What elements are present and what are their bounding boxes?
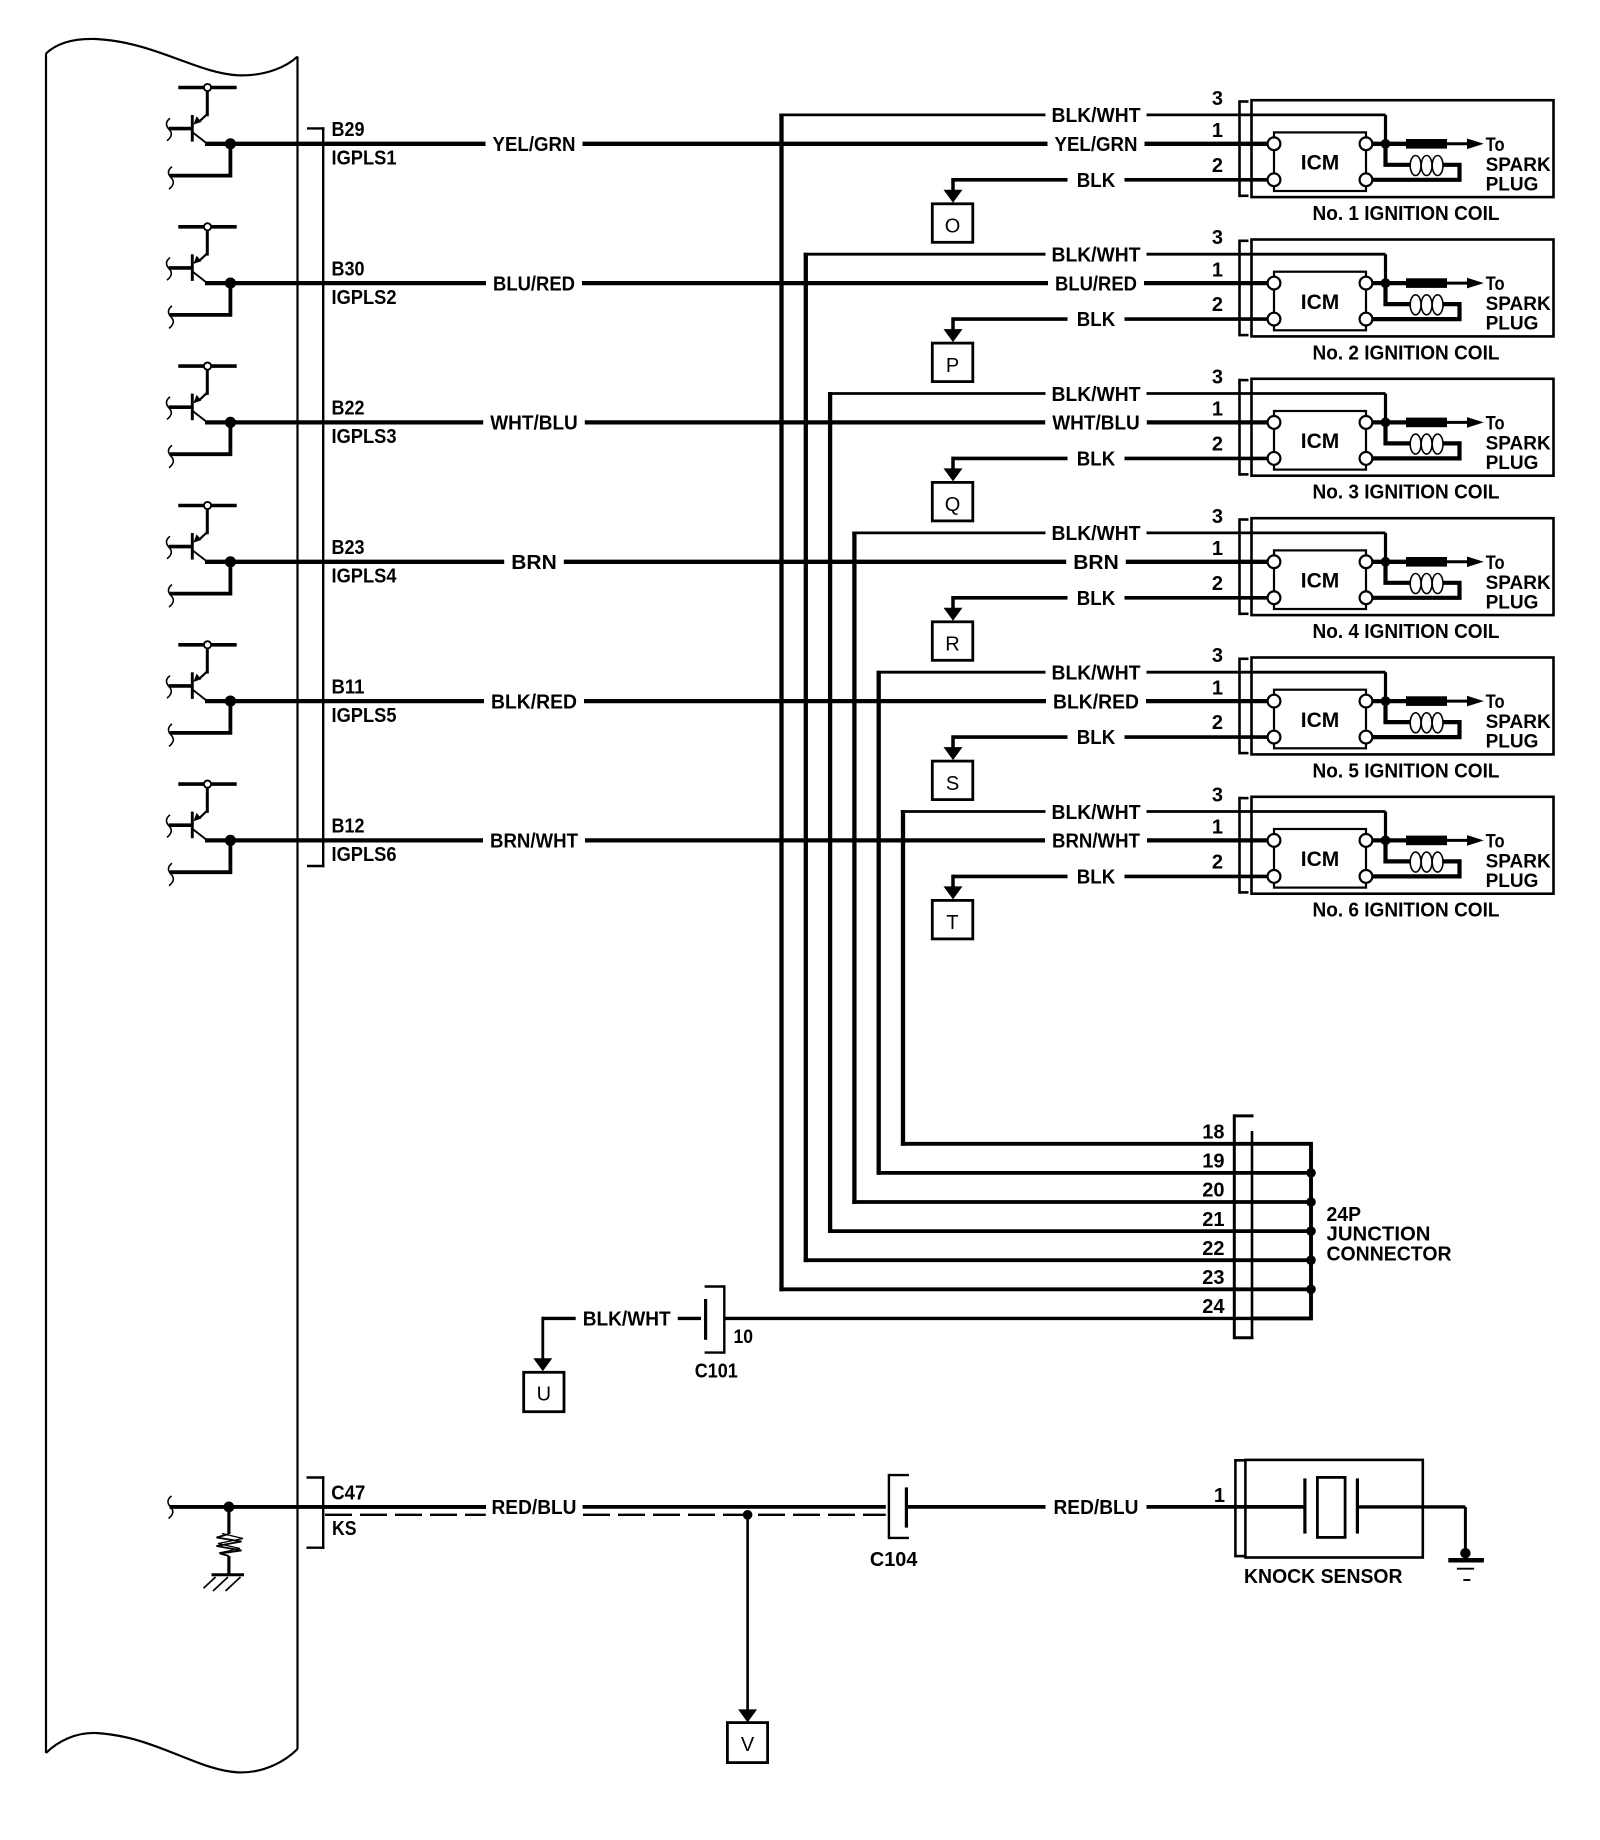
transistor Q3 emitter junction dot (225, 417, 236, 428)
shield junction dot (743, 1510, 753, 1520)
svg-text:To: To (1486, 553, 1505, 574)
svg-text:1: 1 (1212, 259, 1223, 281)
svg-text:BLK/WHT: BLK/WHT (1052, 663, 1141, 685)
knock sensor connector bracket (1235, 1459, 1245, 1557)
svg-text:ICM: ICM (1301, 152, 1340, 175)
svg-text:BLK/RED: BLK/RED (1053, 691, 1139, 713)
ICM coil 1 output wire (1366, 142, 1406, 146)
ICM module coil 6 (1274, 829, 1366, 888)
ground arrow to P (944, 317, 963, 342)
wire BLK/WHT bus for coil 5 (vertical) (877, 671, 881, 1175)
svg-text:IGPLS4: IGPLS4 (332, 566, 398, 588)
svg-text:BLK/WHT: BLK/WHT (583, 1309, 671, 1331)
svg-text:21: 21 (1202, 1209, 1224, 1231)
ECM connector bracket C47 (307, 1476, 325, 1549)
wire BLK/WHT coil 3 pin 3 (828, 394, 1386, 423)
ground arrow to V (738, 1515, 757, 1723)
ignition coil 6 connector bracket (1240, 797, 1249, 894)
svg-text:BLK: BLK (1077, 727, 1116, 749)
svg-text:SPARK: SPARK (1486, 712, 1551, 733)
ICM coil 6 terminals (1268, 834, 1373, 883)
svg-text:JUNCTION: JUNCTION (1327, 1224, 1431, 1246)
svg-text:1: 1 (1212, 817, 1223, 839)
svg-text:BLK/WHT: BLK/WHT (1052, 802, 1141, 824)
svg-text:1: 1 (1212, 399, 1223, 421)
wire BLK/WHT coil 6 pin 3 (901, 812, 1386, 841)
ICM coil 5 terminals (1268, 695, 1373, 744)
junction connector pin 21 stub (1252, 1229, 1311, 1233)
connector box V (727, 1723, 767, 1763)
connector box Q (932, 482, 973, 521)
ignition coil 4 connector bracket (1240, 518, 1249, 615)
label 24P JUNCTION CONNECTOR (1327, 1204, 1453, 1266)
svg-text:2: 2 (1212, 155, 1223, 177)
svg-text:24P: 24P (1327, 1204, 1362, 1226)
svg-text:SPARK: SPARK (1486, 294, 1551, 315)
wire BLK/WHT bus for coil 2 (vertical) (804, 253, 808, 1262)
svg-text:BLU/RED: BLU/RED (1055, 273, 1137, 295)
svg-text:IGPLS1: IGPLS1 (332, 148, 397, 170)
ICM coil 6 output wire (1366, 838, 1406, 842)
wire B29 YEL/GRN to ignition coil 1 pin 1 (205, 142, 1268, 146)
transistor ignition driver Q5 (166, 641, 236, 701)
wire BLK/WHT bus for coil 5 to junction pin 19 (877, 1171, 1252, 1175)
svg-text:10: 10 (734, 1327, 754, 1348)
junction dot coil 3 (1381, 418, 1391, 428)
svg-text:19: 19 (1202, 1151, 1224, 1173)
svg-text:ICM: ICM (1301, 570, 1340, 593)
wire RED/BLU knock sensor signal (325, 1505, 886, 1509)
ignition coil 5 box (1252, 658, 1554, 755)
svg-text:B11: B11 (332, 676, 365, 698)
suppressor resistor coil 5 (1406, 696, 1447, 706)
ignition coil 5 connector bracket (1240, 658, 1249, 755)
svg-text:R: R (945, 634, 959, 656)
ICM coil 2 output wire (1366, 281, 1406, 285)
svg-text:2: 2 (1212, 712, 1223, 734)
svg-text:KS: KS (332, 1518, 357, 1540)
svg-text:ICM: ICM (1301, 848, 1340, 871)
svg-text:IGPLS5: IGPLS5 (332, 705, 397, 727)
transistor ignition driver Q3 (166, 363, 236, 423)
wire to spark plug coil 3 (1447, 417, 1484, 428)
wire BLK/WHT bus for coil 1 (vertical) (779, 114, 783, 1292)
wire BLK/WHT bus for coil 4 (vertical) (852, 532, 856, 1204)
label To SPARK PLUG coil 6 (1486, 832, 1551, 893)
svg-text:SPARK: SPARK (1486, 852, 1551, 873)
svg-text:Q: Q (945, 494, 961, 516)
ICM coil 4 terminals (1268, 555, 1373, 604)
svg-text:C101: C101 (695, 1360, 738, 1382)
ECM connector bracket B pins (307, 127, 324, 867)
svg-text:P: P (946, 355, 959, 377)
svg-text:ICM: ICM (1301, 709, 1340, 732)
svg-text:CONNECTOR: CONNECTOR (1327, 1244, 1453, 1266)
label To SPARK PLUG coil 4 (1486, 553, 1551, 614)
svg-text:S: S (946, 773, 959, 795)
junction dot pin 22 (1306, 1255, 1316, 1265)
junction connector common bus (1252, 1144, 1311, 1319)
ground arrow to R (944, 596, 963, 621)
svg-text:3: 3 (1212, 88, 1223, 110)
ICM module coil 4 (1274, 550, 1366, 609)
ground arrow to O (944, 178, 963, 203)
transistor ignition driver Q2 (166, 223, 236, 283)
svg-text:YEL/GRN: YEL/GRN (1055, 134, 1138, 156)
transistor Q2 lower lead (168, 283, 230, 328)
svg-text:No. 1 IGNITION COIL: No. 1 IGNITION COIL (1313, 203, 1500, 225)
svg-text:3: 3 (1212, 645, 1223, 667)
transistor Q1 lower lead (168, 144, 230, 189)
connector box P (932, 343, 973, 382)
suppressor resistor coil 2 (1406, 278, 1447, 288)
wire BLK/WHT bus for coil 4 to junction pin 20 (852, 1200, 1252, 1204)
svg-text:BRN/WHT: BRN/WHT (1052, 831, 1140, 853)
wire BLK coil 4 pin 2 (953, 596, 1268, 600)
svg-text:B12: B12 (332, 816, 365, 838)
ICM coil 5 output wire (1366, 699, 1406, 703)
junction dot coil 4 (1381, 557, 1391, 567)
svg-text:WHT/BLU: WHT/BLU (490, 413, 578, 435)
knock sensor ground dot (1460, 1548, 1470, 1558)
svg-text:SPARK: SPARK (1486, 434, 1551, 455)
junction connector pin 23 stub (1252, 1287, 1311, 1291)
resistor (ECM internal) (217, 1507, 244, 1574)
junction dot coil 5 (1381, 696, 1391, 706)
transistor Q5 emitter junction dot (225, 696, 236, 707)
svg-text:2: 2 (1212, 851, 1223, 873)
ground arrow to T (944, 875, 963, 900)
wire BLK/WHT bus for coil 1 to junction pin 23 (779, 1287, 1252, 1291)
wire B22 WHT/BLU to ignition coil 3 pin 1 (205, 420, 1268, 424)
wire to spark plug coil 5 (1447, 696, 1484, 707)
ignition coil 3 primary winding (1373, 422, 1460, 458)
ground arrow to Q (944, 457, 963, 482)
svg-text:IGPLS3: IGPLS3 (332, 426, 397, 448)
svg-text:IGPLS2: IGPLS2 (332, 287, 397, 309)
svg-text:2: 2 (1212, 433, 1223, 455)
wire BLK/WHT coil 4 pin 3 (852, 533, 1385, 562)
svg-text:KNOCK SENSOR: KNOCK SENSOR (1244, 1566, 1403, 1588)
ICM module coil 3 (1274, 411, 1366, 470)
junction connector pin 22 stub (1252, 1258, 1311, 1262)
knock sensor box (1245, 1460, 1422, 1558)
svg-text:1: 1 (1212, 677, 1223, 699)
svg-text:C47: C47 (331, 1483, 365, 1505)
svg-text:No. 6 IGNITION COIL: No. 6 IGNITION COIL (1313, 900, 1500, 922)
svg-text:SPARK: SPARK (1486, 573, 1551, 594)
svg-text:B22: B22 (332, 398, 365, 420)
svg-text:SPARK: SPARK (1486, 155, 1551, 176)
svg-text:To: To (1486, 135, 1505, 156)
suppressor resistor coil 4 (1406, 557, 1447, 567)
svg-text:PLUG: PLUG (1486, 592, 1539, 613)
ICM coil 2 terminals (1268, 277, 1373, 326)
svg-text:U: U (537, 1384, 551, 1406)
svg-text:BRN: BRN (511, 552, 557, 574)
wire BLK/WHT bus for coil 6 to junction pin 18 (901, 1142, 1252, 1146)
24P junction connector body bar (1251, 1131, 1254, 1337)
KS circuit junction dot (224, 1502, 235, 1513)
ICM module coil 5 (1274, 690, 1366, 749)
wire BLK coil 3 pin 2 (953, 457, 1268, 461)
svg-text:To: To (1486, 692, 1505, 713)
transistor Q6 emitter junction dot (225, 835, 236, 846)
ICM coil 3 terminals (1268, 416, 1373, 465)
svg-text:B30: B30 (332, 258, 365, 280)
transistor ignition driver Q4 (166, 502, 236, 562)
suppressor resistor coil 1 (1406, 139, 1447, 149)
svg-text:BLK: BLK (1077, 866, 1116, 888)
connector box O (932, 204, 973, 243)
ICM coil 4 output wire (1366, 560, 1406, 564)
junction dot coil 6 (1381, 836, 1391, 846)
shield drain line (dashed) (325, 1514, 886, 1516)
knock sensor piezo element (1305, 1477, 1358, 1537)
ICM module coil 2 (1274, 272, 1366, 331)
ignition coil 5 primary winding (1373, 701, 1460, 737)
ICM coil 1 terminals (1268, 137, 1373, 186)
svg-text:BLK: BLK (1077, 448, 1116, 470)
svg-text:1: 1 (1212, 120, 1223, 142)
svg-text:ICM: ICM (1301, 291, 1340, 314)
transistor Q4 emitter junction dot (225, 556, 236, 567)
svg-text:O: O (945, 216, 961, 238)
label To SPARK PLUG coil 5 (1486, 692, 1551, 753)
transistor Q1 emitter junction dot (225, 138, 236, 149)
svg-text:BRN/WHT: BRN/WHT (490, 831, 578, 853)
svg-text:PLUG: PLUG (1486, 174, 1539, 195)
ignition coil 6 box (1252, 797, 1554, 894)
wire B30 BLU/RED to ignition coil 2 pin 1 (205, 281, 1268, 285)
svg-text:PLUG: PLUG (1486, 732, 1539, 753)
ignition coil 4 primary winding (1373, 562, 1460, 598)
svg-text:2: 2 (1212, 573, 1223, 595)
connector box T (932, 900, 973, 939)
svg-text:3: 3 (1212, 227, 1223, 249)
label To SPARK PLUG coil 3 (1486, 414, 1551, 475)
svg-text:PLUG: PLUG (1486, 314, 1539, 335)
svg-text:BLK/WHT: BLK/WHT (1052, 523, 1141, 545)
junction connector pin 19 stub (1252, 1171, 1311, 1175)
svg-text:RED/BLU: RED/BLU (492, 1497, 577, 1519)
svg-text:To: To (1486, 274, 1505, 295)
wire B12 BRN/WHT to ignition coil 6 pin 1 (205, 838, 1268, 842)
ground arrow to S (944, 735, 963, 760)
ICM module coil 1 (1274, 132, 1366, 191)
svg-text:ICM: ICM (1301, 430, 1340, 453)
wire BLK coil 1 pin 2 (953, 178, 1268, 182)
ignition coil 3 box (1252, 379, 1554, 476)
svg-text:24: 24 (1202, 1296, 1225, 1318)
svg-text:BLK: BLK (1077, 170, 1116, 192)
wire B11 BLK/RED to ignition coil 5 pin 1 (205, 699, 1268, 703)
svg-text:To: To (1486, 832, 1505, 853)
connector box R (932, 622, 973, 661)
earth ground symbol (1448, 1560, 1484, 1580)
ignition coil 2 primary winding (1373, 283, 1460, 319)
transistor Q4 lower lead (168, 562, 230, 607)
svg-text:BLK: BLK (1077, 588, 1116, 610)
connector C101 (705, 1285, 725, 1354)
wire BLK coil 5 pin 2 (953, 735, 1268, 739)
svg-text:2: 2 (1212, 294, 1223, 316)
svg-text:3: 3 (1212, 506, 1223, 528)
ignition coil 3 connector bracket (1240, 379, 1249, 476)
junction connector pin 20 stub (1252, 1200, 1311, 1204)
svg-text:BLK/WHT: BLK/WHT (1052, 384, 1141, 406)
svg-text:1: 1 (1214, 1485, 1225, 1507)
junction dot pin 21 (1306, 1226, 1316, 1236)
ECM module boundary (torn edge) (46, 39, 298, 1773)
ignition coil 4 box (1252, 518, 1554, 615)
wire BLK/WHT bus for coil 3 (vertical) (828, 392, 832, 1233)
svg-text:23: 23 (1202, 1267, 1224, 1289)
svg-text:BLK: BLK (1077, 309, 1116, 331)
wire BLK/WHT bus for coil 2 to junction pin 22 (804, 1258, 1252, 1262)
junction dot pin 23 (1306, 1285, 1316, 1295)
svg-text:T: T (946, 912, 958, 934)
transistor ignition driver Q6 (166, 781, 236, 841)
wire B23 BRN to ignition coil 4 pin 1 (205, 560, 1268, 564)
ignition coil 2 box (1252, 240, 1554, 337)
ignition coil 6 primary winding (1373, 840, 1460, 876)
svg-text:BLK/WHT: BLK/WHT (1052, 105, 1141, 127)
ground arrow to U (533, 1317, 552, 1372)
svg-text:No. 2 IGNITION COIL: No. 2 IGNITION COIL (1313, 342, 1500, 364)
junction dot coil 2 (1381, 278, 1391, 288)
transistor ignition driver Q1 (166, 84, 236, 144)
junction dot pin 20 (1306, 1197, 1316, 1207)
connector C104 (889, 1474, 909, 1539)
wire BLK coil 2 pin 2 (953, 317, 1268, 321)
svg-text:1: 1 (1212, 538, 1223, 560)
transistor Q5 lower lead (168, 701, 230, 746)
svg-text:20: 20 (1202, 1180, 1224, 1202)
wire to spark plug coil 2 (1447, 278, 1484, 289)
ignition coil 2 connector bracket (1240, 240, 1249, 337)
junction dot coil 1 (1381, 139, 1391, 149)
svg-text:PLUG: PLUG (1486, 871, 1539, 892)
wire BLK/WHT coil 1 pin 3 (779, 115, 1385, 144)
ignition coil 1 connector bracket (1240, 100, 1249, 197)
suppressor resistor coil 3 (1406, 418, 1447, 428)
wire to spark plug coil 1 (1447, 139, 1484, 150)
wire BLK/WHT bus for coil 3 to junction pin 21 (828, 1229, 1252, 1233)
svg-text:C104: C104 (870, 1549, 918, 1571)
junction dot pin 19 (1306, 1168, 1316, 1178)
wire RED/BLU to knock sensor (906, 1505, 1303, 1509)
suppressor resistor coil 6 (1406, 836, 1447, 846)
svg-text:BRN: BRN (1073, 552, 1119, 574)
svg-text:YEL/GRN: YEL/GRN (493, 134, 576, 156)
ICM coil 3 output wire (1366, 420, 1406, 424)
transistor Q3 lower lead (168, 422, 230, 467)
svg-text:3: 3 (1212, 367, 1223, 389)
svg-text:22: 22 (1202, 1238, 1224, 1260)
connector box S (932, 761, 973, 800)
svg-text:To: To (1486, 414, 1505, 435)
svg-text:RED/BLU: RED/BLU (1054, 1497, 1139, 1519)
svg-text:18: 18 (1202, 1122, 1224, 1144)
svg-text:BLK/WHT: BLK/WHT (1052, 245, 1141, 267)
svg-text:IGPLS6: IGPLS6 (332, 844, 397, 866)
ignition coil 1 box (1252, 100, 1554, 197)
ignition coil 1 primary winding (1373, 144, 1460, 180)
svg-text:V: V (741, 1734, 755, 1756)
wire BLK/WHT coil 5 pin 3 (877, 672, 1386, 701)
connector box U (524, 1372, 564, 1411)
chassis ground (ECM internal) (204, 1575, 245, 1591)
svg-text:BLK/RED: BLK/RED (491, 691, 577, 713)
wire BLK/WHT coil 2 pin 3 (804, 254, 1386, 283)
svg-text:WHT/BLU: WHT/BLU (1052, 413, 1140, 435)
svg-text:BLU/RED: BLU/RED (493, 273, 575, 295)
wire BLK/WHT bus for coil 6 (vertical) (901, 810, 905, 1146)
svg-text:3: 3 (1212, 785, 1223, 807)
wire BLK coil 6 pin 2 (953, 875, 1268, 879)
svg-text:No. 5 IGNITION COIL: No. 5 IGNITION COIL (1313, 760, 1500, 782)
wire to spark plug coil 6 (1447, 835, 1484, 846)
wire to spark plug coil 4 (1447, 557, 1484, 568)
label To SPARK PLUG coil 2 (1486, 274, 1551, 335)
svg-text:No. 4 IGNITION COIL: No. 4 IGNITION COIL (1313, 621, 1500, 643)
transistor Q6 lower lead (168, 840, 230, 885)
transistor Q2 emitter junction dot (225, 278, 236, 289)
svg-text:PLUG: PLUG (1486, 453, 1539, 474)
svg-text:B29: B29 (332, 119, 365, 141)
ECM knock sensor input wire (168, 1496, 486, 1519)
24P junction connector bracket (1234, 1114, 1253, 1339)
svg-text:B23: B23 (332, 537, 365, 559)
wire BLK/WHT junction pin 24 (543, 1317, 1252, 1320)
knock sensor ground wire (1357, 1507, 1465, 1551)
label To SPARK PLUG coil 1 (1486, 135, 1551, 196)
svg-text:No. 3 IGNITION COIL: No. 3 IGNITION COIL (1313, 482, 1500, 504)
